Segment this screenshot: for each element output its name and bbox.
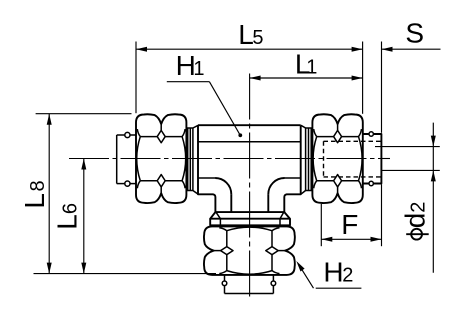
dimension F lines: [320, 204, 322, 246]
svg-text:2: 2: [408, 202, 430, 213]
right nut: [312, 114, 362, 203]
dimension phi-d2 lines: [375, 146, 440, 148]
left collar washer: [186, 125, 198, 194]
left nut (H1): [136, 114, 186, 203]
svg-text:S: S: [405, 17, 424, 48]
svg-text:F: F: [341, 209, 358, 240]
left clip top circle: [125, 132, 130, 137]
right tube sleeve: [363, 134, 382, 184]
dimension L5 lines: [135, 42, 137, 114]
dimension S lines: [381, 42, 383, 133]
sleeve bottom pin circle: [369, 181, 373, 185]
bottom clip bracket: [225, 293, 274, 295]
left clip bottom circle: [125, 181, 130, 186]
svg-text:5: 5: [252, 27, 263, 49]
svg-text:L: L: [19, 193, 50, 209]
svg-text:H: H: [323, 257, 343, 288]
svg-text:2: 2: [342, 265, 353, 287]
leader H1: [167, 81, 210, 83]
svg-text:L: L: [51, 214, 82, 230]
svg-text:8: 8: [27, 180, 49, 191]
tee body: [198, 124, 301, 126]
branch tube walls: [230, 194, 232, 212]
svg-text:1: 1: [193, 58, 204, 80]
svg-text:6: 6: [59, 203, 81, 214]
svg-text:1: 1: [306, 56, 317, 78]
sleeve top pin circle: [369, 132, 373, 136]
bottom washer flange: [215, 211, 284, 213]
bottom nut (H2): [204, 226, 295, 275]
centerline horizontal axis: [69, 158, 390, 160]
dimension L6 lines: [83, 159, 85, 274]
hidden bore lines: [324, 140, 381, 142]
left clip bracket: [116, 135, 118, 184]
dimension L1 lines: [250, 77, 363, 79]
bottom clip right circle: [271, 281, 276, 286]
bottom clip left circle: [222, 281, 227, 286]
dimension L8 lines: [36, 113, 132, 115]
right collar washer: [301, 125, 313, 194]
centerline vertical branch axis: [249, 74, 251, 301]
label phi-d2: [411, 229, 422, 240]
svg-text:d: d: [400, 213, 431, 229]
leader H2: [316, 287, 362, 289]
